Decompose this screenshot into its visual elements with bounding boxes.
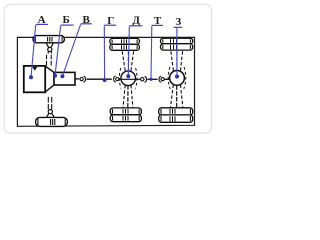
universal joint 4 fork arc bbox=[161, 78, 164, 81]
universal joint 1 fork arc bbox=[84, 76, 86, 82]
axle 2 bottom dual wheel inner tire bbox=[159, 108, 193, 115]
leader dot A (engine) bbox=[29, 75, 33, 79]
svg-text:З: З bbox=[175, 16, 181, 28]
tread marks axle 2 bottom bbox=[170, 109, 175, 122]
gearbox output stub bbox=[75, 78, 79, 80]
universal joint 4 ring bbox=[159, 76, 161, 82]
universal joint 3 fork arc bbox=[145, 76, 147, 82]
axle 1 housing dashed lines upper bbox=[122, 51, 133, 71]
leader dot G (driveshaft) bbox=[103, 78, 107, 82]
chassis frame rectangle bbox=[17, 37, 194, 126]
axle 1 top dual wheel outer tire bbox=[110, 38, 140, 44]
engine block bbox=[24, 66, 45, 92]
leader dot D (differential 1) bbox=[126, 74, 130, 78]
differential 2 bbox=[170, 71, 185, 86]
underline B bbox=[61, 24, 74, 26]
underline A bbox=[36, 23, 48, 25]
inter-axle driveshaft bbox=[147, 78, 157, 80]
axle 1 housing dashed lines lower bbox=[123, 85, 133, 108]
tread marks front top wheel bbox=[48, 37, 52, 42]
leader dot Z (differential 2) bbox=[175, 75, 179, 79]
tread marks front bottom wheel bbox=[51, 119, 55, 125]
underline V bbox=[81, 23, 92, 25]
differential 1 through shaft bbox=[119, 78, 140, 80]
underline Z bbox=[174, 26, 183, 28]
universal joint 2 fork arc bbox=[114, 76, 116, 82]
gearbox bbox=[54, 72, 75, 85]
leader dot V (gearbox) bbox=[60, 74, 64, 78]
leader D bbox=[128, 26, 129, 76]
leader dot B (clutch) bbox=[53, 74, 57, 78]
axle 2 top dual wheel inner tire bbox=[161, 44, 193, 50]
shaft into differential 2 bbox=[164, 78, 170, 80]
axle 2 bottom dual wheel outer tire bbox=[159, 115, 193, 122]
axle 1 shaft dashed lower bbox=[127, 85, 129, 108]
axle 2 shaft dashed upper bbox=[176, 51, 178, 70]
front left wheel (top) bbox=[33, 36, 64, 43]
differential 1 bbox=[121, 71, 136, 86]
engine top notch triangle bbox=[32, 67, 37, 71]
axle 2 housing dashed lines upper bbox=[171, 51, 183, 71]
axle 1 bottom dual wheel inner tire bbox=[110, 108, 141, 115]
leader dot T (inter-axle shaft) bbox=[149, 78, 152, 81]
underline G bbox=[104, 24, 116, 26]
axle 1 bottom dual wheel outer tire bbox=[110, 115, 141, 122]
universal joint 1 ring bbox=[80, 78, 83, 81]
underline T bbox=[152, 24, 163, 26]
front axle beam lower dashed bbox=[48, 97, 51, 110]
universal joint 3 ring bbox=[141, 78, 144, 81]
steering knuckle fork (top) bbox=[46, 43, 53, 51]
tread marks axle 2 top bbox=[171, 39, 177, 49]
leader T bbox=[150, 26, 153, 79]
front axle beam (top half) bbox=[47, 51, 52, 65]
axle 1 shaft dashed upper bbox=[127, 51, 129, 71]
card background bbox=[4, 4, 211, 133]
tire end cap lines bbox=[35, 37, 190, 125]
leader G bbox=[103, 26, 105, 80]
universal joint 2 ring bbox=[116, 78, 119, 81]
svg-text:Б: Б bbox=[62, 14, 69, 26]
tread marks axle 1 bottom bbox=[123, 109, 128, 121]
driveshaft 1 bbox=[87, 78, 112, 80]
underline D bbox=[129, 25, 142, 27]
steering knuckle fork (bottom) bbox=[47, 110, 55, 118]
axle 1 top dual wheel inner tire bbox=[110, 44, 140, 50]
axle 2 housing dashed lines lower bbox=[171, 85, 183, 108]
axle 2 top dual wheel outer tire bbox=[161, 38, 193, 44]
leader Z bbox=[176, 28, 178, 77]
axle 1 housing dashed flank arcs bbox=[119, 68, 137, 89]
axle 2 housing dashed flank arcs bbox=[168, 67, 186, 89]
leader A bbox=[31, 25, 36, 77]
axle 2 shaft dashed lower bbox=[176, 85, 178, 107]
tread marks axle 1 top bbox=[122, 39, 127, 49]
front left wheel (bottom) bbox=[36, 117, 68, 126]
leader B bbox=[55, 26, 61, 76]
leader V bbox=[62, 24, 80, 76]
svg-text:Д: Д bbox=[132, 14, 140, 26]
clutch housing trapezoid bbox=[45, 66, 54, 92]
